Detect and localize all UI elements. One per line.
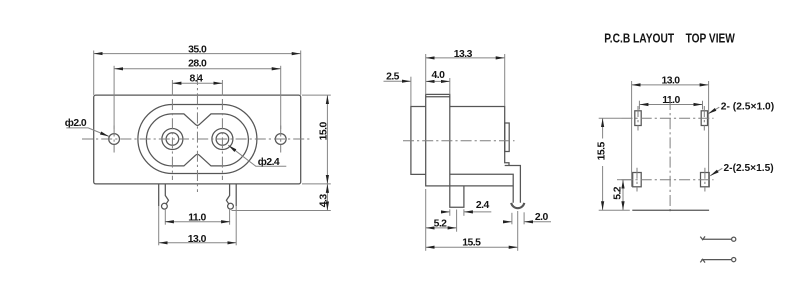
svg-text:4.0: 4.0 — [432, 70, 446, 81]
svg-text:5.2: 5.2 — [613, 186, 624, 200]
svg-text:2.5: 2.5 — [386, 71, 400, 82]
svg-text:2-(2.5×1.5): 2-(2.5×1.5) — [724, 163, 774, 174]
svg-text:15.5: 15.5 — [596, 142, 607, 161]
svg-text:2.0: 2.0 — [535, 212, 549, 223]
svg-text:15.5: 15.5 — [462, 237, 481, 248]
svg-text:TOP VIEW: TOP VIEW — [686, 31, 736, 46]
svg-text:ф2.0: ф2.0 — [65, 117, 87, 129]
svg-text:13.0: 13.0 — [188, 234, 207, 245]
svg-text:2- (2.5×1.0): 2- (2.5×1.0) — [721, 101, 774, 112]
svg-text:35.0: 35.0 — [188, 45, 207, 56]
svg-text:13.0: 13.0 — [661, 75, 680, 86]
svg-text:4.3: 4.3 — [319, 194, 330, 208]
svg-text:11.0: 11.0 — [188, 213, 206, 224]
svg-text:15.0: 15.0 — [319, 122, 330, 141]
svg-text:11.0: 11.0 — [662, 95, 680, 106]
svg-text:P.C.B LAYOUT: P.C.B LAYOUT — [604, 31, 674, 46]
svg-text:13.3: 13.3 — [454, 49, 473, 60]
svg-text:28.0: 28.0 — [188, 58, 207, 69]
svg-text:5.2: 5.2 — [434, 218, 448, 229]
svg-text:8.4: 8.4 — [190, 74, 204, 85]
svg-text:2.4: 2.4 — [476, 200, 490, 211]
